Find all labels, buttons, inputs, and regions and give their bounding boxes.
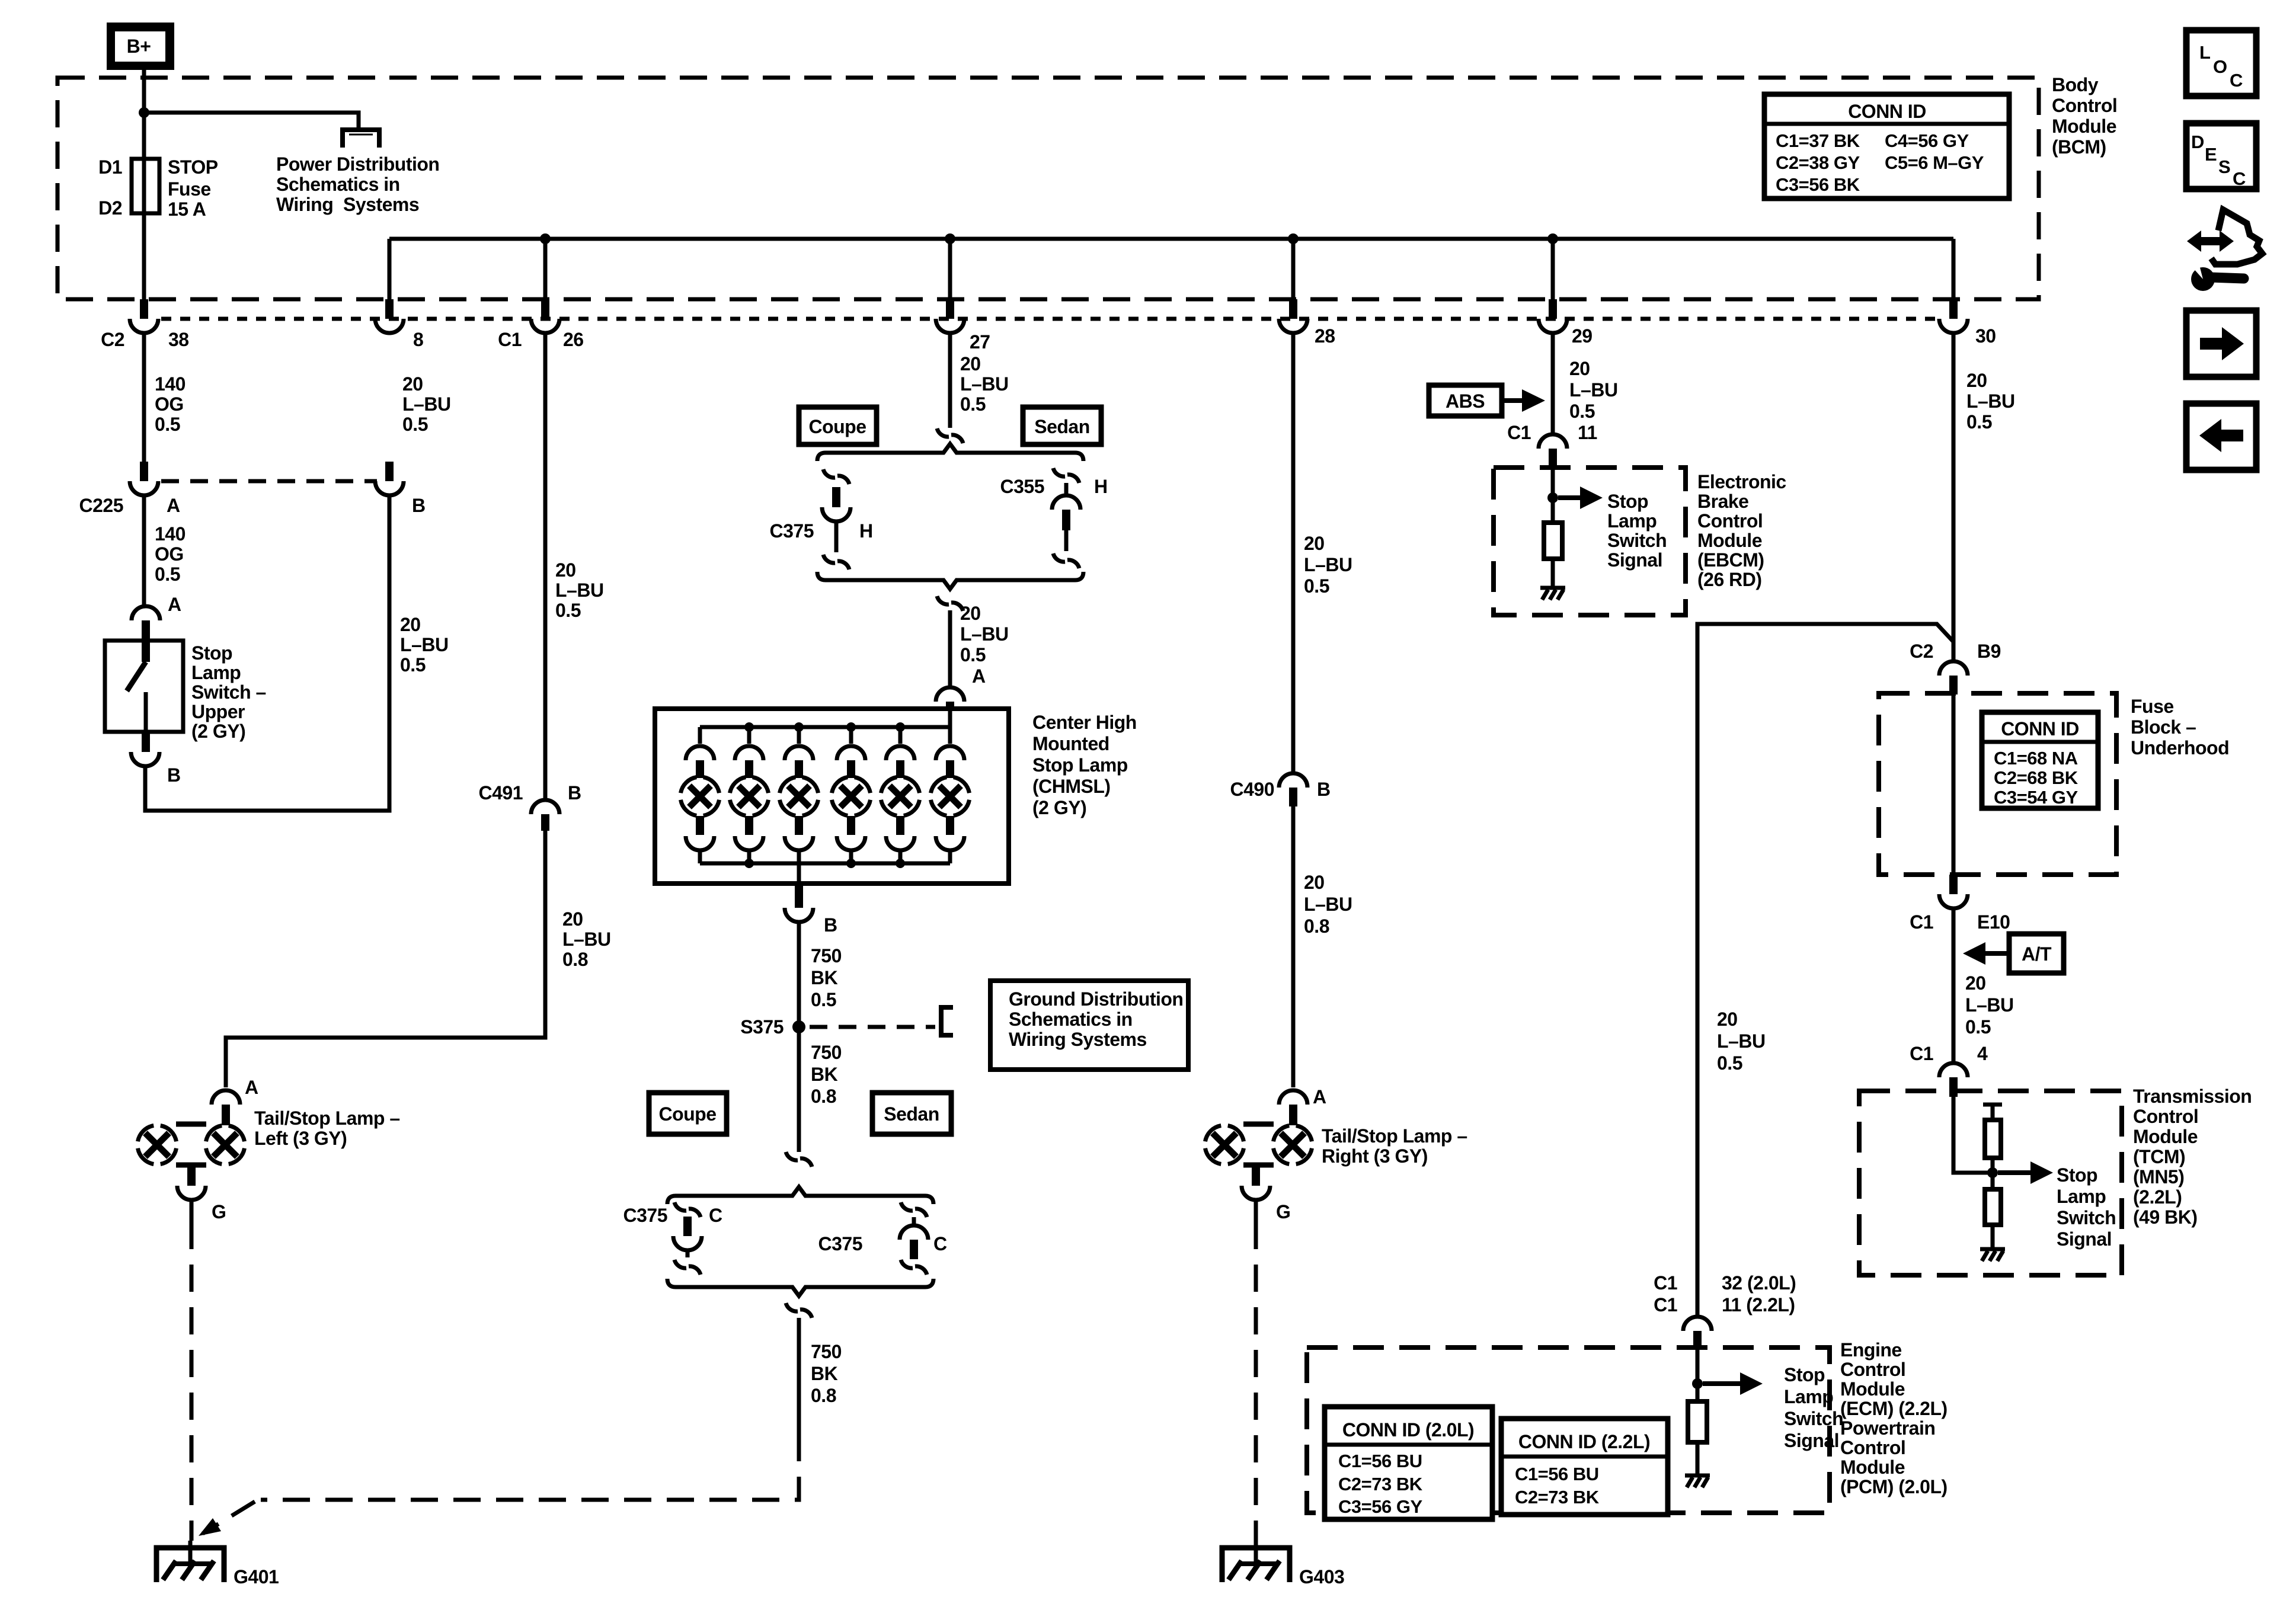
svg-text:4: 4	[1977, 1043, 1988, 1064]
svg-text:Switch: Switch	[1607, 530, 1667, 551]
wire label 20 L-BU 0.8 col5 lower	[1304, 872, 1352, 937]
svg-text:Stop Lamp: Stop Lamp	[1032, 754, 1128, 776]
svg-text:0.8: 0.8	[811, 1385, 836, 1406]
svg-text:Underhood: Underhood	[2131, 737, 2229, 758]
wire CHMSL B to S375	[797, 922, 801, 1152]
svg-text:C2: C2	[101, 329, 124, 350]
wire B+ to fuse	[142, 70, 146, 159]
svg-text:C1=68 NA: C1=68 NA	[1994, 748, 2078, 769]
hook below merge	[937, 596, 963, 611]
svg-text:C2=73 BK: C2=73 BK	[1515, 1487, 1600, 1507]
connector at CHMSL pin B	[785, 884, 813, 922]
svg-text:30: 30	[1975, 325, 1996, 347]
arrow stop lamp switch signal EBCM	[1558, 495, 1581, 500]
svg-text:S375: S375	[740, 1016, 784, 1038]
svg-text:Switch –: Switch –	[191, 681, 266, 703]
wire label 140 OG 0.5 below C225	[155, 523, 186, 585]
wire sedan branch lower	[1064, 530, 1069, 551]
tail/stop lamp right E5	[1205, 1124, 1312, 1186]
svg-text:Right (3 GY): Right (3 GY)	[1322, 1145, 1428, 1167]
svg-text:0.5: 0.5	[1966, 411, 1992, 433]
lamp bulb 3 CHMSL	[779, 727, 818, 863]
label Body Control Module (BCM)	[2052, 74, 2117, 158]
svg-text:B: B	[568, 782, 581, 804]
svg-text:20: 20	[402, 373, 423, 395]
svg-text:Switch: Switch	[1784, 1408, 1843, 1429]
wire right lamp G stub	[1254, 1200, 1258, 1222]
svg-text:(ECM) (2.2L): (ECM) (2.2L)	[1840, 1398, 1948, 1419]
svg-text:32 (2.0L): 32 (2.0L)	[1722, 1272, 1796, 1294]
svg-text:20: 20	[1304, 872, 1325, 893]
svg-text:Module: Module	[1697, 530, 1762, 551]
wire bus drop col6	[1551, 239, 1555, 299]
wire merge to ground run	[797, 1318, 801, 1434]
Body Control Module BCM dashed box	[57, 78, 2039, 299]
svg-text:L–BU: L–BU	[1569, 379, 1618, 401]
icon diagnostic wrench	[2187, 210, 2262, 291]
svg-text:C: C	[709, 1205, 722, 1226]
fuse STOP 15A F1	[132, 159, 159, 213]
svg-text:L–BU: L–BU	[960, 623, 1009, 645]
svg-text:(2 GY): (2 GY)	[1032, 797, 1086, 818]
svg-text:(EBCM): (EBCM)	[1697, 549, 1764, 571]
svg-text:29: 29	[1572, 325, 1593, 347]
EBCM dashed box	[1494, 468, 1686, 615]
svg-text:D1: D1	[98, 156, 122, 178]
node lamp5 bottom	[896, 859, 905, 868]
svg-text:L–BU: L–BU	[1966, 391, 2015, 412]
node lamp3 top	[794, 722, 804, 732]
svg-text:0.5: 0.5	[155, 414, 180, 435]
CHMSL top bus	[700, 725, 950, 729]
svg-text:C375: C375	[818, 1233, 863, 1254]
note box Ground Distribution Schematics in Wiring Systems	[990, 981, 1188, 1070]
svg-text:C4=56 GY: C4=56 GY	[1885, 130, 1969, 151]
svg-text:G401: G401	[234, 1566, 279, 1587]
connector pin 30 of BCM	[1939, 299, 1968, 333]
label Stop Lamp Switch Signal EBCM	[1607, 491, 1667, 571]
hook below lower merge	[786, 1303, 812, 1318]
wire bus drop col5	[1291, 239, 1296, 299]
splice hook col4	[937, 428, 963, 443]
svg-text:Signal: Signal	[1784, 1430, 1839, 1451]
svg-text:C1: C1	[1654, 1272, 1677, 1294]
svg-text:Tail/Stop Lamp –: Tail/Stop Lamp –	[254, 1108, 400, 1129]
wire 30 to fuse block B9	[1952, 333, 1956, 661]
resistor in ECM	[1688, 1401, 1707, 1442]
node bus-col6	[1547, 233, 1558, 244]
svg-text:26: 26	[563, 329, 584, 350]
svg-text:Stop: Stop	[2057, 1164, 2097, 1186]
wire 28 to C490	[1291, 333, 1296, 773]
svg-text:(TCM): (TCM)	[2133, 1146, 2185, 1167]
icon box arrow left	[2186, 404, 2256, 470]
svg-text:(26 RD): (26 RD)	[1697, 569, 1762, 590]
svg-text:L–BU: L–BU	[960, 373, 1009, 395]
node lamp4 top	[846, 722, 856, 732]
svg-text:Ground Distribution: Ground Distribution	[1009, 988, 1183, 1010]
svg-text:750: 750	[811, 1042, 842, 1063]
svg-text:20: 20	[960, 353, 981, 375]
arrow stop lamp switch signal ECM	[1703, 1381, 1741, 1386]
svg-text:C1: C1	[498, 329, 522, 350]
svg-text:A: A	[972, 665, 986, 687]
svg-text:Tail/Stop Lamp –: Tail/Stop Lamp –	[1322, 1125, 1467, 1147]
svg-text:G: G	[212, 1201, 226, 1222]
svg-text:C2=73 BK: C2=73 BK	[1338, 1474, 1423, 1494]
svg-text:Module: Module	[2133, 1126, 2198, 1147]
svg-text:Wiring Systems: Wiring Systems	[1009, 1029, 1147, 1050]
svg-text:Coupe: Coupe	[658, 1103, 716, 1125]
svg-text:140: 140	[155, 523, 186, 545]
svg-text:S: S	[2218, 156, 2230, 177]
wire fuse block to TCM	[1952, 908, 1956, 1063]
label Electronic Brake Control Module (EBCM) (26 RD)	[1697, 471, 1786, 590]
net reference box ABS	[1429, 385, 1502, 416]
svg-text:D2: D2	[98, 197, 122, 219]
node lamp5 top	[896, 722, 905, 732]
label STOP Fuse 15 A	[168, 156, 218, 220]
lamp bulb 6 CHMSL	[930, 727, 970, 863]
ground internal TCM	[1980, 1249, 2005, 1261]
CONN ID table fuse block	[1982, 712, 2098, 808]
net reference box A/T	[2009, 934, 2064, 973]
svg-text:C3=54 GY: C3=54 GY	[1994, 787, 2078, 808]
svg-text:Control: Control	[2133, 1106, 2198, 1127]
node EBCM signal tap	[1547, 492, 1558, 503]
svg-text:Schematics in: Schematics in	[276, 174, 400, 195]
svg-text:H: H	[859, 520, 873, 542]
svg-text:Module: Module	[1840, 1378, 1905, 1400]
ground wire dashed to G401	[190, 1222, 194, 1541]
ground wire dashed to G403	[1254, 1222, 1258, 1541]
node bus-col5	[1288, 233, 1299, 244]
svg-text:Powertrain: Powertrain	[1840, 1417, 1935, 1439]
svg-text:8: 8	[413, 329, 423, 350]
connector pin 8 of BCM	[375, 299, 404, 333]
wire 29 to EBCM	[1551, 333, 1555, 436]
icon box DESC	[2186, 123, 2256, 189]
node junction at B+ tap	[139, 107, 149, 118]
in-line connector C491	[531, 800, 559, 831]
svg-text:(MN5): (MN5)	[2133, 1166, 2184, 1188]
svg-text:D: D	[2191, 132, 2204, 152]
CONN ID table 2.0L	[1325, 1407, 1492, 1519]
CONN ID table 2.2L	[1501, 1419, 1668, 1515]
connector at tail lamp right pin G	[1242, 1186, 1270, 1200]
split brace upper	[817, 444, 1083, 461]
arrow A/T to wire	[1984, 951, 2009, 956]
svg-text:20: 20	[960, 603, 981, 624]
svg-text:Stop: Stop	[191, 642, 232, 664]
svg-text:Control: Control	[1840, 1437, 1905, 1458]
svg-text:0.5: 0.5	[960, 644, 986, 665]
svg-text:0.5: 0.5	[402, 414, 428, 435]
svg-text:Control: Control	[2052, 95, 2117, 116]
svg-text:G403: G403	[1299, 1566, 1344, 1587]
svg-text:Power Distribution: Power Distribution	[276, 153, 439, 175]
node TCM signal tap	[1987, 1167, 1998, 1178]
svg-text:C: C	[2230, 70, 2243, 91]
wire merge to CHMSL	[948, 610, 952, 687]
svg-text:Switch: Switch	[2057, 1207, 2116, 1228]
svg-text:38: 38	[168, 329, 189, 350]
fuse block underhood dashed box	[1879, 693, 2116, 875]
svg-text:C1=56 BU: C1=56 BU	[1338, 1451, 1422, 1471]
sedan branch hook bottom	[1053, 553, 1079, 568]
split brace lower section	[667, 1187, 933, 1204]
svg-text:C: C	[2233, 168, 2246, 189]
svg-text:0.5: 0.5	[1717, 1052, 1742, 1074]
svg-text:L–BU: L–BU	[1304, 894, 1352, 915]
svg-text:L–BU: L–BU	[400, 634, 449, 655]
svg-text:(2.2L): (2.2L)	[2133, 1186, 2182, 1208]
dashed ground wire to G401	[261, 1434, 799, 1500]
svg-text:E10: E10	[1977, 911, 2010, 933]
lamp bulb 2 CHMSL	[730, 727, 769, 863]
dashed reference line from S375	[810, 1025, 935, 1029]
svg-text:Electronic: Electronic	[1697, 471, 1786, 492]
variant box Coupe upper	[799, 407, 877, 444]
node ECM signal tap	[1692, 1378, 1703, 1389]
stop lamp switch upper S1	[105, 641, 183, 732]
svg-text:C: C	[933, 1233, 947, 1254]
svg-text:Signal: Signal	[2057, 1228, 2112, 1250]
svg-text:20: 20	[1966, 370, 1987, 391]
svg-text:0.5: 0.5	[811, 989, 836, 1010]
connector pin 26 of BCM C1	[531, 299, 559, 333]
tail/stop lamp left E4	[137, 1124, 245, 1186]
coupe branch hook top	[823, 469, 849, 484]
svg-text:A/T: A/T	[2022, 943, 2052, 965]
svg-text:C491: C491	[479, 782, 523, 804]
bracket to ground distribution note	[941, 1007, 953, 1035]
svg-text:Lamp: Lamp	[191, 662, 241, 683]
wire label 20 L-BU 0.5 circuit 20 col2	[402, 373, 451, 435]
svg-text:B: B	[1317, 779, 1331, 800]
wire ECM feed from fuse block	[1697, 624, 1953, 1317]
sedan-low hook bottom	[901, 1260, 927, 1275]
EBCM internal wire	[1551, 469, 1555, 523]
in-line connector C375 coupe H	[822, 487, 850, 521]
label Stop Lamp Switch - Upper (2 GY)	[191, 642, 266, 742]
svg-text:L–BU: L–BU	[1304, 554, 1352, 575]
svg-text:ABS: ABS	[1446, 391, 1485, 412]
wire C225 to switch	[142, 495, 146, 606]
svg-text:O: O	[2213, 56, 2227, 77]
svg-text:G: G	[1276, 1201, 1290, 1222]
svg-text:L–BU: L–BU	[1965, 994, 2014, 1016]
arrowhead into G401	[199, 1518, 221, 1536]
ECM internal wire	[1696, 1350, 1700, 1401]
svg-text:15 A: 15 A	[168, 199, 206, 220]
svg-text:20: 20	[1717, 1009, 1738, 1030]
ground internal ECM	[1685, 1475, 1710, 1487]
svg-text:Sedan: Sedan	[884, 1103, 939, 1125]
svg-text:L–BU: L–BU	[555, 580, 604, 601]
wire label 20 L-BU 0.5 TCM feed	[1965, 972, 2014, 1038]
coupe-low branch hook top	[674, 1202, 701, 1217]
svg-text:20: 20	[1965, 972, 1986, 994]
svg-text:Lamp: Lamp	[1607, 510, 1657, 532]
in-line connector C355 sedan H	[1052, 495, 1080, 530]
in-line connector C225 pin B harness side	[375, 462, 404, 495]
svg-text:A: A	[168, 594, 181, 615]
wire bus drop col7	[1952, 239, 1956, 299]
svg-text:0.5: 0.5	[1965, 1016, 1991, 1038]
wire label 20 L-BU 0.5 ECM feed	[1717, 1009, 1766, 1074]
wire lamp G stub	[190, 1200, 194, 1222]
TCM internal wire	[1953, 1092, 1993, 1173]
svg-text:B9: B9	[1977, 641, 2001, 662]
svg-text:0.8: 0.8	[811, 1086, 836, 1107]
svg-text:C2: C2	[1910, 641, 1933, 662]
svg-text:Schematics in: Schematics in	[1009, 1009, 1133, 1030]
wire bus drop col2	[388, 239, 392, 299]
svg-text:C5=6 M–GY: C5=6 M–GY	[1885, 152, 1984, 173]
wire coupe branch lower	[834, 521, 839, 552]
wire sedan-low upper	[912, 1217, 916, 1225]
wire label 140 OG 0.5 circuit 140	[155, 373, 186, 435]
svg-text:CONN ID (2.2L): CONN ID (2.2L)	[1518, 1431, 1650, 1452]
svg-text:(49 BK): (49 BK)	[2133, 1206, 2198, 1228]
connector at tail lamp right pin A	[1279, 1090, 1307, 1125]
lamp bulb 4 CHMSL	[832, 727, 871, 863]
svg-text:C375: C375	[770, 520, 814, 542]
svg-text:Body: Body	[2052, 74, 2099, 95]
in-line connector C225 pin A harness side	[130, 462, 158, 495]
svg-text:CONN ID: CONN ID	[1848, 101, 1926, 122]
resistor in EBCM	[1544, 523, 1562, 559]
wire tap to power distribution	[144, 113, 359, 130]
wire label 750 BK 0.5	[811, 945, 842, 1010]
label Tail/Stop Lamp - Right (3 GY)	[1322, 1125, 1467, 1167]
svg-text:Transmission: Transmission	[2133, 1086, 2252, 1107]
svg-text:BK: BK	[811, 1363, 838, 1384]
svg-text:Module: Module	[1840, 1457, 1905, 1478]
svg-text:L–BU: L–BU	[562, 929, 611, 950]
ground internal EBCM	[1540, 588, 1565, 600]
wire label 20 L-BU 0.5 col6	[1569, 358, 1618, 422]
connector pin 38 of BCM C2	[130, 299, 158, 333]
svg-text:C1: C1	[1910, 911, 1933, 933]
svg-text:Left (3 GY): Left (3 GY)	[254, 1128, 347, 1149]
variant box Coupe lower	[649, 1093, 727, 1134]
svg-text:Control: Control	[1840, 1359, 1905, 1380]
wire fuse to connector 38	[142, 213, 146, 299]
svg-text:0.5: 0.5	[155, 564, 180, 585]
connector at tail lamp left pin G	[177, 1186, 206, 1200]
wire 26 to C491	[543, 333, 548, 801]
CHMSL bottom bus	[700, 862, 950, 866]
arrow stop lamp switch signal TCM	[1998, 1170, 2032, 1175]
svg-text:(BCM): (BCM)	[2052, 136, 2106, 158]
svg-text:27: 27	[970, 331, 990, 353]
label Stop Lamp Switch Signal TCM	[2057, 1164, 2116, 1250]
svg-text:Control: Control	[1697, 510, 1763, 532]
dashed diagonal into G401	[203, 1502, 255, 1534]
svg-text:OG: OG	[155, 543, 184, 565]
svg-text:CONN ID: CONN ID	[2001, 718, 2079, 740]
svg-text:Fuse: Fuse	[168, 178, 211, 200]
icon box LOC	[2186, 30, 2256, 96]
sedan-low branch hook top	[901, 1202, 927, 1217]
ECM PCM dashed box	[1307, 1347, 1830, 1513]
svg-text:C1: C1	[1507, 422, 1531, 443]
wire resistor to ground ECM	[1696, 1442, 1700, 1475]
coupe branch hook bottom	[823, 555, 849, 569]
svg-text:Block –: Block –	[2131, 716, 2196, 738]
coupe-low hook bottom	[674, 1260, 701, 1275]
TCM dashed box	[1859, 1091, 2122, 1275]
svg-text:B+: B+	[127, 36, 151, 57]
svg-text:E: E	[2205, 144, 2217, 165]
svg-text:BK: BK	[811, 1064, 838, 1085]
svg-text:A: A	[245, 1077, 258, 1098]
svg-text:(CHMSL): (CHMSL)	[1032, 776, 1111, 797]
label Transmission Control Module (TCM) (MN5) (2.2L) (49 BK)	[2133, 1086, 2252, 1228]
connector at stop lamp switch pin B	[131, 732, 159, 766]
svg-text:Lamp: Lamp	[1784, 1386, 1833, 1407]
svg-text:20: 20	[1304, 533, 1325, 554]
node lamp2 top	[744, 722, 754, 732]
svg-text:C3=56 GY: C3=56 GY	[1338, 1496, 1422, 1517]
svg-text:A: A	[167, 495, 180, 516]
svg-text:BK: BK	[811, 967, 838, 988]
svg-text:H: H	[1094, 476, 1108, 497]
node lamp4 bottom	[846, 859, 856, 868]
svg-text:L: L	[2199, 42, 2210, 63]
wire bus drop col3	[543, 239, 548, 299]
svg-text:(PCM) (2.0L): (PCM) (2.0L)	[1840, 1476, 1948, 1497]
CONN ID table BCM	[1764, 94, 2009, 199]
svg-text:20: 20	[400, 614, 421, 635]
svg-text:Brake: Brake	[1697, 491, 1748, 512]
wire label 20 L-BU 0.5 CHMSL	[960, 603, 1009, 665]
svg-text:C1=37 BK: C1=37 BK	[1776, 130, 1860, 151]
arrow ABS to wire	[1502, 398, 1523, 403]
wire C491 to tail lamp left	[226, 831, 545, 1087]
svg-text:750: 750	[811, 945, 842, 966]
svg-text:C1: C1	[1910, 1043, 1933, 1064]
label Tail/Stop Lamp - Left (3 GY)	[254, 1108, 400, 1149]
fuse block internal wire	[1952, 694, 1956, 875]
wire resistor to ground EBCM	[1551, 559, 1555, 588]
svg-text:(2 GY): (2 GY)	[191, 721, 245, 742]
in-line connector C490	[1279, 773, 1307, 806]
sedan branch hook top	[1053, 468, 1079, 483]
connector at fuse block B9	[1939, 661, 1968, 694]
CHMSL exit wire pin B	[797, 863, 801, 884]
CHMSL box	[655, 709, 1009, 884]
wire switch B loop to col2	[145, 495, 389, 811]
connector pin 28 of BCM	[1279, 299, 1307, 333]
node bus-col4	[945, 233, 955, 244]
svg-text:OG: OG	[155, 393, 184, 415]
label Power Distribution Schematics in Wiring Systems	[276, 153, 439, 215]
ground G401	[156, 1541, 224, 1582]
connector at EBCM pin 11	[1539, 434, 1567, 469]
CHMSL entry wire	[948, 710, 952, 727]
connector row dashes C225	[161, 479, 377, 484]
lamp bulb 5 CHMSL	[881, 727, 920, 863]
wire label 20 L-BU 0.5 col3	[555, 559, 604, 621]
svg-text:0.5: 0.5	[960, 393, 986, 415]
svg-text:Stop: Stop	[1784, 1364, 1825, 1385]
TCM pullup resistor	[1983, 1105, 2002, 1173]
svg-text:Mounted: Mounted	[1032, 733, 1109, 754]
merge brace lower section	[667, 1279, 933, 1296]
